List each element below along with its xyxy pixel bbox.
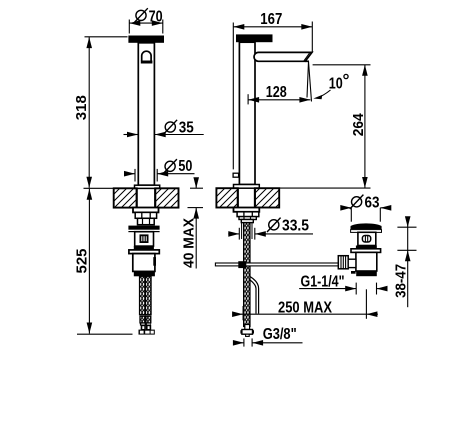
- dim 525 vertical: [77, 188, 133, 334]
- supply hose (braided): [244, 223, 250, 327]
- svg-text:33.5: 33.5: [282, 217, 309, 234]
- dim Ø35: [124, 134, 204, 136]
- svg-text:525: 525: [73, 249, 90, 274]
- shank tube: [241, 220, 253, 223]
- cartridge window: [140, 235, 147, 242]
- bent rod going down: [250, 277, 259, 314]
- black band under body: [356, 246, 377, 249]
- washer under counter (right): [234, 208, 260, 212]
- locknut tier2: [138, 218, 155, 224]
- dim 264: [279, 65, 370, 188]
- handle mark (arch): [142, 51, 151, 61]
- black band 2: [134, 271, 155, 276]
- drain flange: [351, 249, 381, 253]
- spout cut second line: [304, 52, 310, 61]
- hose bottom fitting (right view): [245, 325, 250, 330]
- small box on column back: [233, 173, 239, 177]
- dim 167: [233, 22, 312, 170]
- counter left view (hatched): [114, 188, 137, 207]
- svg-text:50: 50: [178, 158, 192, 175]
- locknut tier2 (right): [239, 217, 256, 220]
- svg-text:40 MAX: 40 MAX: [181, 218, 198, 268]
- svg-text:G1-1/4": G1-1/4": [301, 274, 345, 291]
- drain body: [358, 232, 376, 245]
- svg-text:128: 128: [266, 84, 287, 101]
- counter right view (hatched): [216, 188, 237, 207]
- svg-text:G3/8": G3/8": [263, 326, 297, 343]
- svg-text:318: 318: [73, 95, 90, 120]
- svg-text:38-47: 38-47: [392, 264, 409, 298]
- side tab (black): [153, 257, 156, 266]
- label Ø33.5: [267, 218, 281, 232]
- svg-text:250 MAX: 250 MAX: [278, 299, 332, 316]
- dim 318 vertical: [85, 37, 128, 188]
- overflow window: [362, 236, 370, 243]
- connector mid piece: [348, 259, 356, 267]
- svg-text:35: 35: [179, 119, 194, 136]
- side column: [239, 42, 255, 184]
- shank through counter (left): [136, 188, 138, 207]
- rod clamp (black): [238, 261, 246, 268]
- locknut (right): [237, 212, 259, 217]
- washer under counter: [133, 208, 159, 213]
- 10deg arc arrow: [318, 90, 331, 98]
- dim G3/8: [234, 338, 303, 346]
- hose end fittings: [140, 316, 145, 323]
- dim 250 MAX: [241, 289, 378, 320]
- hose left: [140, 276, 146, 314]
- base plate on counter: [135, 185, 160, 188]
- label Ø35: [164, 120, 178, 134]
- svg-text:264: 264: [350, 113, 367, 137]
- svg-text:70: 70: [149, 9, 163, 26]
- svg-text:167: 167: [260, 11, 282, 28]
- base plate right view: [234, 185, 260, 189]
- dim Ø63: [341, 208, 391, 222]
- shank through counter (right): [237, 188, 239, 207]
- svg-text:10: 10: [329, 76, 343, 93]
- valve body upper: [135, 232, 154, 246]
- cap (black) of column: [128, 36, 164, 43]
- label Ø63: [350, 195, 364, 209]
- black band: [134, 246, 154, 249]
- label Ø70: [134, 8, 148, 22]
- hose end necks: [142, 325, 146, 329]
- dim 38-47: [397, 219, 416, 307]
- dim Ø33.5: [228, 228, 313, 240]
- dim Ø50: [125, 169, 195, 182]
- locknut tier1: [135, 212, 156, 218]
- drain lower body: [356, 252, 377, 271]
- column body: [138, 43, 154, 185]
- hose end nuts: [139, 330, 155, 335]
- pop-up rod (horizontal): [215, 263, 345, 266]
- dim Ø70 ticks: [129, 20, 163, 34]
- dim 40 MAX: [188, 178, 204, 269]
- dim 128: [248, 94, 310, 104]
- black flange: [128, 226, 159, 230]
- dim Ø70 arrows: [129, 20, 140, 26]
- spout arm: [254, 52, 312, 61]
- dim G1-1/4: [299, 283, 386, 295]
- drain cap (dome, black top): [351, 223, 382, 229]
- 10deg reference lines: [307, 62, 309, 98]
- label Ø50: [163, 159, 177, 173]
- black seal band: [356, 271, 377, 276]
- handle bar (black): [236, 34, 273, 42]
- lower flange: [129, 250, 159, 254]
- lower body box: [133, 254, 155, 272]
- hose right: [146, 276, 152, 314]
- svg-text:63: 63: [365, 194, 380, 211]
- knurled connector: [338, 256, 348, 269]
